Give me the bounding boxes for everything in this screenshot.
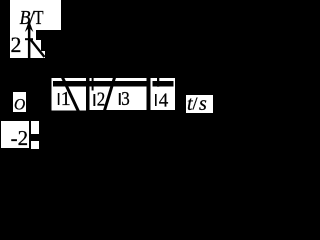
svg-text:4: 4 <box>159 90 169 112</box>
svg-text:s: s <box>199 93 207 115</box>
white backing box for tick cell 4 <box>151 78 176 110</box>
white backing box around y-axis and value 2 <box>10 29 45 58</box>
white backing box for tick cells 2 and 3 <box>90 78 147 110</box>
white backing box for t/s label <box>186 95 213 113</box>
white backing box for B/T label <box>10 0 61 30</box>
svg-text:/: / <box>193 94 198 114</box>
waveform diagonal rising through t=3 <box>103 76 115 114</box>
y-axis line <box>28 26 31 58</box>
y-axis arrowhead <box>25 21 33 33</box>
tick label 3 <box>119 93 121 105</box>
x-axis thick bar segment over cells 2-3 <box>90 81 147 87</box>
svg-text:2: 2 <box>11 32 22 57</box>
x-axis thick bar segment over cell 4 <box>153 81 174 87</box>
white strip right of -2 box, lower part <box>31 141 39 149</box>
white backing box for origin O <box>13 92 26 112</box>
white backing box for value -2 <box>1 121 29 148</box>
tick mark at t=4 <box>157 78 159 87</box>
waveform diagonal falling through t=1 <box>63 78 79 112</box>
waveform diagonal from value 2 at t=0 <box>31 40 45 58</box>
tick at value 2 on y-axis <box>25 38 33 40</box>
tick mark at t=2 <box>92 78 94 91</box>
svg-text:-2: -2 <box>11 126 29 150</box>
svg-text:1: 1 <box>61 88 71 110</box>
svg-text:T: T <box>34 7 44 29</box>
tick label 4 <box>155 94 157 106</box>
x-axis thick bar segment over cell 1 <box>53 81 86 87</box>
white backing box for tick cell 1 <box>52 78 87 111</box>
tick label 2 <box>93 94 95 106</box>
svg-text:3: 3 <box>121 88 130 110</box>
tick label 1 <box>58 93 60 105</box>
svg-text:2: 2 <box>97 89 106 111</box>
white strip right of -2 box, upper part <box>31 121 39 134</box>
svg-text:O: O <box>14 97 25 114</box>
